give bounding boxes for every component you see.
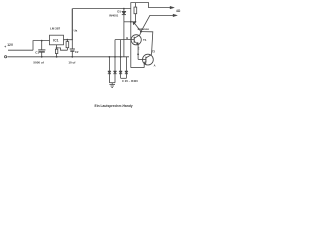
wire wiper to speaker 2 xyxy=(141,15,150,31)
svg-text:C1: C1 xyxy=(35,50,39,54)
node pot junction xyxy=(135,21,137,23)
wire join columns 3-4 xyxy=(121,77,127,79)
node rail junction dots xyxy=(41,56,43,58)
resistor R1 xyxy=(55,49,57,57)
svg-text:B: B xyxy=(126,36,128,40)
wire T1 emitter down xyxy=(137,44,139,60)
diode D5 column xyxy=(125,57,128,78)
svg-text:E: E xyxy=(138,46,140,50)
node caption xyxy=(95,104,133,108)
wire feedback stair xyxy=(57,48,68,50)
label Balance xyxy=(138,27,150,31)
svg-text:C 20 ~ R400: C 20 ~ R400 xyxy=(122,79,138,83)
node +12V terminal xyxy=(4,43,14,49)
svg-text:Ein Lautsprecher-Handy: Ein Lautsprecher-Handy xyxy=(95,104,133,108)
potentiometer P1 balance xyxy=(134,3,137,22)
capacitor C2 10uf xyxy=(70,40,79,57)
diode D1 1N4001 xyxy=(109,9,126,57)
wire T1 base xyxy=(115,39,134,41)
node circuit value label xyxy=(122,79,138,83)
wire speaker arrow 1 xyxy=(170,6,174,9)
resistor R2 xyxy=(66,40,69,51)
svg-text:IC1: IC1 xyxy=(53,39,58,43)
value 5000 uf xyxy=(33,60,43,64)
wire output top rail xyxy=(72,8,131,10)
ground xyxy=(109,83,115,88)
wire ground rail xyxy=(7,56,129,58)
svg-text:4Ω: 4Ω xyxy=(176,9,181,13)
diode D2 column xyxy=(108,57,111,83)
wire speaker arrow 2 xyxy=(150,14,174,16)
svg-text:10 uf: 10 uf xyxy=(68,60,75,64)
wire jog over to speaker xyxy=(131,3,171,9)
wire T2 emitter down xyxy=(143,64,145,68)
svg-text:LM 387: LM 387 xyxy=(50,26,61,30)
svg-text:C2: C2 xyxy=(75,50,79,54)
svg-text:IN4001: IN4001 xyxy=(109,13,118,17)
capacitor C1 5000uf xyxy=(35,41,45,57)
node minus terminal xyxy=(5,56,7,58)
op-amp U1 IC1 box xyxy=(50,35,64,45)
node B label xyxy=(126,36,128,40)
svg-text:+: + xyxy=(4,45,6,49)
svg-text:A: A xyxy=(154,64,156,68)
node E label xyxy=(138,46,140,50)
node A label xyxy=(154,64,156,68)
transistor Q2 T2 xyxy=(143,50,156,65)
wire + input rail xyxy=(8,49,33,51)
diode D4 column xyxy=(119,40,122,79)
node riser label xyxy=(74,29,78,33)
node emitter junction xyxy=(137,53,139,55)
node output mid junction xyxy=(140,31,142,33)
wire pot bottom link xyxy=(124,21,135,23)
node output junction xyxy=(66,39,68,41)
svg-text:T1: T1 xyxy=(143,38,147,42)
svg-text:T2: T2 xyxy=(152,50,156,54)
wire supply riser xyxy=(71,9,73,41)
node diode tap xyxy=(123,8,125,10)
svg-text:5000 uf: 5000 uf xyxy=(33,60,43,64)
wire IC bottom pin xyxy=(56,45,58,49)
svg-text:Balance: Balance xyxy=(138,27,150,31)
node junction C1 tap xyxy=(41,40,43,42)
wire T2 base xyxy=(138,58,146,60)
wire long left vertical xyxy=(130,9,132,68)
svg-text:12V: 12V xyxy=(7,43,14,47)
node pin junction xyxy=(56,47,58,49)
op-amp U1 label LM387 xyxy=(50,26,61,30)
wire T2 collector up xyxy=(141,32,153,55)
wire IC output xyxy=(64,39,73,42)
wire ground join 1 xyxy=(109,82,115,84)
wire emitter return xyxy=(131,67,144,69)
node speaker label xyxy=(176,9,181,13)
wire riser to IC input xyxy=(33,41,50,51)
svg-text:Ua: Ua xyxy=(74,29,78,33)
diode D3 column xyxy=(113,40,116,83)
value 10 uf xyxy=(68,60,75,64)
transistor Q1 T1 xyxy=(131,32,147,45)
wire wiper arrow xyxy=(133,21,141,31)
